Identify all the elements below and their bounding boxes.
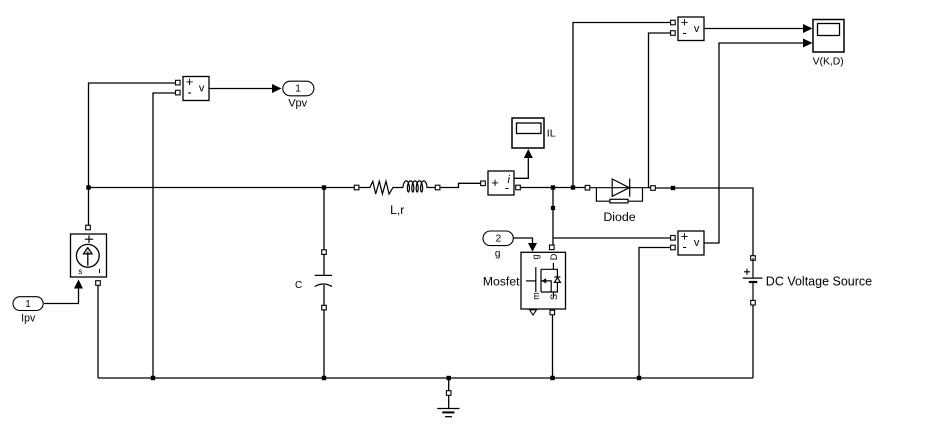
junction node bottom bus Mosfet source xyxy=(550,376,554,380)
svg-text:-: - xyxy=(505,180,509,195)
port VM1 minus xyxy=(176,90,181,95)
svg-text:-: - xyxy=(187,85,191,100)
junction node bottom bus ground xyxy=(447,376,451,380)
port VM2 minus xyxy=(671,31,676,36)
svg-text:m: m xyxy=(531,292,541,300)
diode D xyxy=(590,179,651,203)
svg-text:v: v xyxy=(199,83,205,95)
wire VM1 minus input down to bottom bus xyxy=(153,93,177,378)
arrowhead VM3 wire to scope xyxy=(803,39,813,48)
port VM1 plus xyxy=(176,80,181,85)
port Mosfet drain xyxy=(550,245,555,250)
port VM2 plus xyxy=(671,20,676,25)
svg-text:s: s xyxy=(78,267,82,276)
wire current measurement i output up to display IL xyxy=(514,151,528,178)
port current source top xyxy=(86,225,91,230)
svg-text:-: - xyxy=(682,25,686,40)
wire diode anode node up to VM2 plus input xyxy=(573,23,671,188)
wire VM2 minus input down to diode cathode node xyxy=(649,33,671,188)
wire capacitor bottom branch xyxy=(323,310,325,378)
wire bottom bus xyxy=(98,377,753,379)
wire DC source bottom to bottom bus xyxy=(752,305,754,378)
input port oval 2 g xyxy=(483,231,513,260)
voltage measurement VM1 xyxy=(183,74,209,100)
port VM3 minus xyxy=(671,245,676,250)
svg-text:D: D xyxy=(549,253,559,260)
arrowhead Ipv to current source xyxy=(74,280,83,289)
svg-text:v: v xyxy=(694,23,700,35)
wire current measurement right port to diode left port xyxy=(521,187,586,189)
voltage measurement VM3 xyxy=(678,229,704,255)
svg-text:g: g xyxy=(495,249,501,260)
junction node diode cathode DC branch xyxy=(671,186,675,190)
current measurement CM xyxy=(488,171,514,195)
wire diode cathode to DC voltage source xyxy=(656,188,754,256)
port current measurement right xyxy=(516,185,521,190)
svg-text:IL: IL xyxy=(547,127,556,139)
display IL xyxy=(512,118,556,148)
port ground xyxy=(446,391,451,396)
scope V(K,D) xyxy=(813,20,844,68)
junction node bottom bus VM3 minus xyxy=(637,376,641,380)
capacitor C xyxy=(315,254,332,305)
junction node capacitor top xyxy=(322,185,326,189)
port current source bottom right xyxy=(96,281,101,286)
port diode cathode xyxy=(651,186,656,191)
voltage measurement VM2 xyxy=(678,15,704,41)
wire left vertical from current source plus up to VM1 plus input xyxy=(89,83,177,227)
wire node down from L,r output to Mosfet drain xyxy=(552,188,554,246)
junction node PV top xyxy=(86,185,90,189)
port DC source bottom xyxy=(751,300,756,305)
input port oval 1 Ipv xyxy=(13,297,43,325)
svg-text:DC Voltage Source: DC Voltage Source xyxy=(766,274,872,288)
wire VM3 plus input xyxy=(553,237,671,239)
Mosfet block xyxy=(521,252,566,309)
series RLC branch L,r xyxy=(359,181,435,194)
wire VM3 output to scope input 2 xyxy=(704,43,804,243)
arrowhead VM1 output to Vpv xyxy=(272,84,282,93)
svg-text:V(K,D): V(K,D) xyxy=(813,56,844,67)
wire VM1 output to Vpv port xyxy=(209,88,273,90)
port current measurement input xyxy=(481,181,486,186)
wire L,r right port to current measurement input xyxy=(440,183,481,187)
Mosfet terminal labels xyxy=(531,253,560,300)
port Mosfet source xyxy=(550,310,555,315)
controlled current source (PV) xyxy=(71,234,107,277)
wire top bus from PV node to L,r left port xyxy=(89,187,357,189)
wire capacitor top branch xyxy=(323,188,325,251)
port L,r left xyxy=(354,185,359,190)
svg-text:+: + xyxy=(491,175,499,190)
svg-text:Diode: Diode xyxy=(603,210,635,224)
svg-text:L,r: L,r xyxy=(390,203,404,217)
port L,r right xyxy=(435,185,440,190)
junction node bottom bus VM1 minus xyxy=(151,376,155,380)
ground symbol xyxy=(437,409,459,417)
svg-text:2: 2 xyxy=(496,233,502,244)
junction node bottom bus capacitor xyxy=(322,376,326,380)
svg-text:Mosfet: Mosfet xyxy=(483,275,520,289)
Mosfet channel arrow xyxy=(542,278,547,283)
arrowhead g to Mosfet xyxy=(528,243,537,252)
wire current source bottom to bottom bus xyxy=(97,286,99,379)
wire VM3 minus input down to bottom bus xyxy=(639,248,671,379)
wire ground branch xyxy=(448,378,450,391)
junction node Mosfet drain branch xyxy=(551,185,555,189)
svg-text:1: 1 xyxy=(25,299,31,310)
svg-text:S: S xyxy=(549,294,559,300)
svg-text:C: C xyxy=(295,280,302,291)
arrowhead VM2 to scope xyxy=(803,24,813,33)
svg-text:Ipv: Ipv xyxy=(21,312,36,324)
wire Ipv port to current source input xyxy=(44,287,79,304)
svg-text:g: g xyxy=(531,254,541,259)
junction node diode anode VM2 branch xyxy=(571,185,575,189)
port capacitor bottom xyxy=(322,305,327,310)
Mosfet m port unconnected hollow arrow xyxy=(530,310,537,315)
wire g port to Mosfet gate xyxy=(513,238,533,243)
junction marker on Mosfet drain wire xyxy=(551,206,555,210)
port VM3 plus xyxy=(671,236,676,241)
port diode anode xyxy=(585,185,590,190)
DC voltage source xyxy=(743,258,763,300)
arrowhead current to IL display xyxy=(524,149,533,158)
svg-text:1: 1 xyxy=(295,83,301,94)
svg-text:-: - xyxy=(682,239,686,254)
port capacitor top xyxy=(322,250,327,255)
wire VM2 output to scope input 1 xyxy=(704,28,804,30)
output port oval 1 Vpv xyxy=(283,81,314,110)
svg-text:v: v xyxy=(694,237,700,249)
svg-text:Vpv: Vpv xyxy=(288,98,307,110)
wire Mosfet source down to bottom bus xyxy=(552,315,554,378)
port DC source top xyxy=(751,256,756,261)
